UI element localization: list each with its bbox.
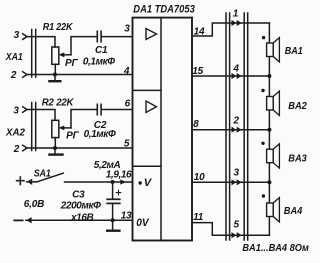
svg-text:BA1: BA1 [285,45,303,57]
wire R1 wiper to C1 [71,37,97,55]
junction bus row 2 [267,128,271,132]
wire R1 bottom to ground rail [54,64,56,74]
junction ch1 ground [53,73,57,77]
wire DA1 pin8 to connector row 2 [192,129,269,131]
svg-text:11: 11 [193,212,204,223]
svg-text:13: 13 [121,210,132,221]
svg-text:3: 3 [124,24,130,35]
resistor R2 (volume pot) [52,120,71,137]
label +V [139,177,153,189]
speaker BA1 [262,36,280,62]
pin 2 of XA2 [13,144,27,155]
connector XA1 [32,30,36,78]
svg-text:5: 5 [124,139,130,150]
amplifier triangle 1 [146,29,157,40]
ground ch1 [49,75,60,82]
wire C2 to DA1 pin 6 [102,109,133,111]
DA1 section divider 2 [133,165,162,167]
svg-text:R1 22K: R1 22K [43,22,73,33]
wire DA1 pin10 to connector row 3 [192,181,269,183]
svg-text:РГ: РГ [66,131,79,142]
junction bus row 3 [267,180,271,184]
wire DA1 pin14 to connector row 1 [192,23,269,36]
op-amp U DA1 outline [133,18,193,241]
connector XA2 [32,103,36,151]
wire XA2 pin2 to DA1 pin 5 [27,147,133,149]
svg-text:C3: C3 [72,189,85,200]
wire minus rail to DA1 pin 13 [26,219,133,221]
wire XA2 pin3 to R2 top [27,110,55,121]
svg-text:1,9,16: 1,9,16 [106,169,132,180]
wire XA1 pin3 to R1 top [27,37,55,47]
current direction arrow 5,2мА [120,179,126,184]
connector X output plug [226,13,230,240]
wire R2 bottom to ground rail [54,138,56,148]
svg-text:BA1...BA4 8Ом: BA1...BA4 8Ом [242,242,309,254]
pin 3 of XA1 [14,30,27,41]
speaker BA2 [261,89,279,116]
wire R2 wiper to C2 [71,110,97,128]
capacitor C2 [97,104,101,114]
svg-text:3: 3 [13,105,19,116]
ground at C3 [107,220,119,231]
svg-text:6,0В: 6,0В [24,199,44,210]
pin 5 arrows [232,232,242,238]
connector X output socket [244,13,248,240]
svg-text:BA4: BA4 [284,205,303,217]
svg-text:XA1: XA1 [5,51,23,63]
svg-text:1: 1 [233,9,239,20]
svg-text:4: 4 [232,64,239,75]
svg-text:3: 3 [234,167,240,178]
svg-text:SA1: SA1 [34,169,51,180]
svg-text:2: 2 [10,70,17,81]
svg-text:10: 10 [194,172,205,183]
pin 1 arrows [232,20,242,26]
junction ch2 ground [53,146,57,150]
svg-text:R2 22K: R2 22K [42,97,74,108]
svg-text:х16В: х16В [70,213,93,224]
pin 3 of XA2 [13,105,27,116]
svg-text:4: 4 [123,66,130,77]
pin 3 arrows [232,179,242,185]
svg-text:C1: C1 [95,45,108,56]
svg-text:3: 3 [14,30,20,41]
speaker BA3 [261,142,279,169]
DA1 internal divider [160,18,162,241]
junction C3 plus [111,180,115,184]
svg-text:XA2: XA2 [5,127,25,139]
svg-text:0,1мкФ: 0,1мкФ [83,57,115,68]
svg-text:2200мкФ: 2200мкФ [60,201,101,212]
wire speaker bus [268,23,270,235]
svg-text:2: 2 [233,116,240,127]
svg-text:5: 5 [234,219,240,230]
svg-text:BA2: BA2 [288,100,307,112]
svg-text:0,1мкФ: 0,1мкФ [84,129,116,140]
node − (battery minus) [14,217,31,223]
wire C1 to DA1 pin 3 [102,36,133,38]
svg-text:6: 6 [125,98,131,109]
amplifier triangle 2 [146,101,157,113]
wire XA1 pin2 to DA1 pin 4 [27,74,133,76]
pin 2 of XA1 [10,70,27,81]
svg-text:РГ: РГ [65,58,78,69]
DA1 section divider 1 [133,89,162,91]
capacitor C3 [107,182,121,220]
pin 2 arrows [232,127,242,133]
ground ch2 [49,148,62,155]
wire DA1 pin11 to connector row 5 [192,223,269,236]
svg-text:DA1 TDA7053: DA1 TDA7053 [133,4,195,16]
capacitor C1 [97,31,101,41]
wire SA1 to +V pin [65,181,133,183]
junction C3 minus [111,218,115,222]
resistor R1 (volume pot) [52,47,71,64]
pin 4 arrows [232,73,242,79]
junction bus row 4 [267,74,271,78]
svg-text:2: 2 [13,144,20,155]
wire DA1 pin15 to connector row 4 [192,75,269,77]
node + (battery plus) [17,177,37,185]
speaker BA4 [262,194,280,222]
svg-text:0V: 0V [136,217,150,229]
svg-text:BA3: BA3 [288,152,307,164]
svg-text:8: 8 [193,119,199,130]
switch SA1 [37,173,63,182]
